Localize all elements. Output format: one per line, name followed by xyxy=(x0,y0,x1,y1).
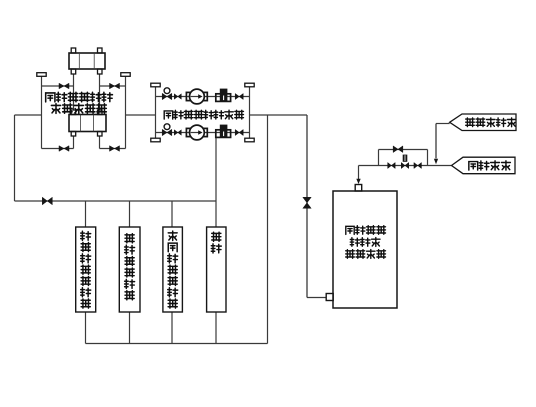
flag label startup fill water xyxy=(452,157,516,174)
wire bypass top xyxy=(379,149,428,151)
wire stub to generator aux xyxy=(171,201,173,227)
valve pump A discharge xyxy=(235,94,243,100)
wire pump branch B xyxy=(156,132,250,134)
heat exchanger E1 body xyxy=(69,53,105,69)
valve HX upper right xyxy=(110,83,120,89)
equipment box generator aux xyxy=(163,227,183,312)
flange cap HX left header xyxy=(37,73,46,77)
label pump text xyxy=(164,111,172,119)
check valve pump B discharge xyxy=(216,130,231,138)
expansion tank side nozzle xyxy=(326,294,333,301)
wire HX right header xyxy=(125,76,127,148)
valve HX lower right xyxy=(110,146,120,152)
label tank text line3 xyxy=(346,250,355,259)
wire bypass left riser xyxy=(378,150,380,166)
wire HX upper valve row right xyxy=(100,85,126,87)
wire fill line drop to tank xyxy=(306,115,308,298)
equipment box misc xyxy=(207,227,226,312)
wire pump drain down to misc branch xyxy=(215,137,217,227)
expansion tank top nozzle xyxy=(355,185,362,192)
wire main supply left segment xyxy=(15,114,42,116)
wire main between HX and pumps xyxy=(126,114,156,116)
label tank text line1 xyxy=(346,226,354,234)
wire riser to bottom return bus xyxy=(267,115,269,344)
wire equipment bottom return bus xyxy=(86,343,268,345)
valve on fill drop line xyxy=(303,197,311,208)
flange cap pump header bottom right xyxy=(245,138,254,142)
wire HX interconnect left nozzle line xyxy=(73,74,75,110)
wire generator aux to return bus xyxy=(171,312,173,344)
valve HX upper left xyxy=(59,83,69,89)
wire HX interconnect right nozzle line xyxy=(99,74,101,110)
wire pump right header xyxy=(249,87,251,138)
wire HX2 right bottom nozzle line xyxy=(99,136,101,149)
wire main from pumps to risers xyxy=(250,114,308,116)
flange cap pump header top right xyxy=(245,83,254,87)
check valve pump A discharge xyxy=(216,94,231,102)
wire bypass right riser xyxy=(427,150,429,166)
expansion tank body xyxy=(333,191,397,308)
flange cap pump header top left xyxy=(151,83,160,87)
valve with vent pump B inlet xyxy=(164,124,170,130)
arrow into tank xyxy=(356,179,360,184)
wire stub to boiler aux xyxy=(129,201,131,227)
wire HX lower valve row right xyxy=(100,148,126,150)
wire HX2 left bottom nozzle line xyxy=(73,136,75,149)
equipment box turbine aux xyxy=(76,227,96,312)
wire pump left header xyxy=(155,87,157,138)
wire misc to return bus xyxy=(215,312,217,344)
equipment box boiler aux xyxy=(119,227,140,312)
wire pump branch A xyxy=(156,96,250,98)
valve makeup 1 xyxy=(388,163,396,169)
wire condensate makeup line xyxy=(436,123,450,125)
heat exchanger E2 body xyxy=(69,115,106,132)
wire boiler aux to return bus xyxy=(129,312,131,344)
label HX text line1 xyxy=(46,93,55,102)
flange cap pump header bottom left xyxy=(151,138,160,142)
valve pump A suction xyxy=(174,94,181,99)
wire drop into tank xyxy=(358,166,360,180)
valve on equipment supply bus xyxy=(42,197,52,205)
arrow condensate into header xyxy=(434,159,438,164)
pump PB xyxy=(186,128,190,136)
valve bypass xyxy=(393,146,403,153)
wire left return drop xyxy=(14,115,16,201)
heat exchanger E2 nozzles xyxy=(71,110,76,115)
wire HX left header xyxy=(41,76,43,148)
label tank text line2 xyxy=(350,238,359,247)
flange cap HX right header xyxy=(121,73,130,77)
valve pump B discharge xyxy=(235,130,243,136)
flag label condensate makeup water xyxy=(450,114,516,131)
label HX text line2 xyxy=(51,104,60,114)
wire turbine aux to return bus xyxy=(85,312,87,344)
wire HX lower valve row left xyxy=(42,148,74,150)
valve HX lower left xyxy=(59,146,69,152)
wire makeup header xyxy=(359,165,452,167)
wire equipment supply bus xyxy=(15,200,217,202)
wire to tank side nozzle xyxy=(307,297,326,299)
valve pump B suction xyxy=(174,130,181,135)
valve makeup 2 motor operated xyxy=(403,155,408,162)
wire stub to turbine aux xyxy=(85,201,87,227)
valve makeup 3 xyxy=(414,163,422,169)
wire HX upper valve row left xyxy=(42,85,74,87)
heat exchanger E1 nozzles xyxy=(71,48,76,53)
pump PA xyxy=(186,92,190,100)
valve with vent pump A inlet xyxy=(164,88,170,94)
